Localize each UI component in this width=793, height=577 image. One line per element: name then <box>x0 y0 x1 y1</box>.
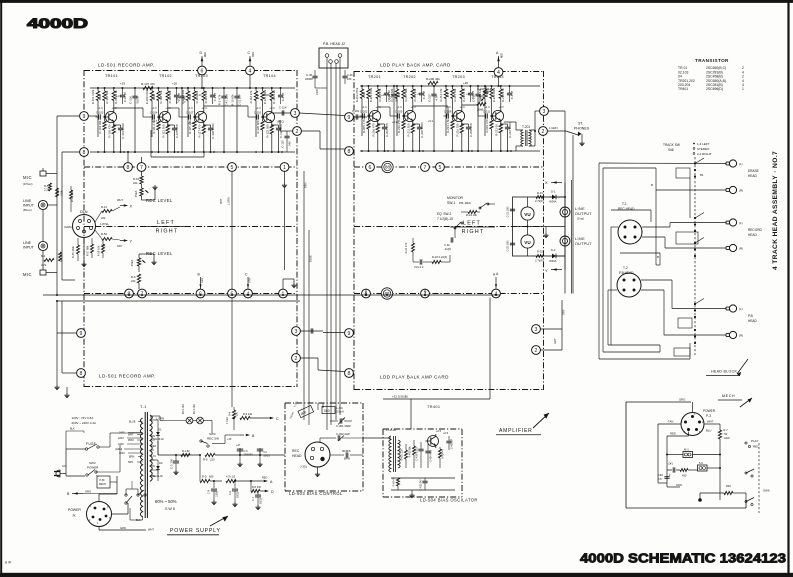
svg-text:R-2 2.2k: R-2 2.2k <box>59 251 63 262</box>
svg-text:150: 150 <box>236 411 239 416</box>
svg-text:REC LEVEL: REC LEVEL <box>146 198 173 203</box>
stage TR103 collector out wire <box>203 106 205 108</box>
switch contacts track sw upper <box>694 162 696 164</box>
record top feed wires <box>201 75 203 89</box>
stage TR201 bias resistor <box>367 89 370 99</box>
svg-text:R-109 100k: R-109 100k <box>145 89 149 104</box>
svg-text:36V: 36V <box>151 435 156 438</box>
playback supply rail <box>360 85 540 87</box>
svg-text:C1W: C1W <box>315 89 319 95</box>
transistor TR202 <box>404 110 415 121</box>
mech outer box <box>626 401 691 403</box>
svg-text:BLUE: BLUE <box>309 255 313 262</box>
inductor L-301 <box>298 405 314 417</box>
svg-text:2.7k(F): 2.7k(F) <box>535 259 544 263</box>
svg-text:GRY: GRY <box>562 309 566 315</box>
stage TR101 bias resistor <box>103 91 106 101</box>
stage TR101 rail capacitor <box>120 94 125 96</box>
svg-text:R-200 46k: R-200 46k <box>426 77 440 81</box>
svg-text:+15: +15 <box>466 92 471 96</box>
svg-text:50/25: 50/25 <box>135 96 139 103</box>
svg-text:SW-09-02: SW-09-02 <box>153 438 164 441</box>
svg-text:C-207: C-207 <box>428 94 432 102</box>
svg-text:STEREO: STEREO <box>697 147 710 151</box>
svg-text:20kB: 20kB <box>477 108 484 112</box>
VU wires <box>527 197 529 207</box>
svg-text:7 1/2(B)-15: 7 1/2(B)-15 <box>437 217 453 221</box>
svg-text:SW3: SW3 <box>89 461 96 465</box>
svg-text:VU: VU <box>524 240 531 245</box>
svg-text:AMPLIFIER: AMPLIFIER <box>499 428 533 434</box>
stage TR204 coupling capacitor <box>485 113 487 118</box>
record amp supply rail <box>90 87 295 89</box>
stage TR203 emitter resistor <box>460 124 463 133</box>
svg-text:T-201: T-201 <box>522 125 530 129</box>
svg-text:4 TRACK HEAD ASSEMBLY · NO.7: 4 TRACK HEAD ASSEMBLY · NO.7 <box>772 151 779 270</box>
svg-text:1-4 LEFT: 1-4 LEFT <box>697 142 710 146</box>
svg-text:VR201: VR201 <box>477 94 486 98</box>
stage TR102 coupling capacitor <box>152 114 154 119</box>
svg-text:# w: # w <box>4 559 11 565</box>
transistor TR204 <box>492 110 503 121</box>
svg-text:C#1: C#1 <box>668 462 673 466</box>
mains arrow <box>82 489 84 494</box>
svg-text:C-5 100: C-5 100 <box>170 459 174 469</box>
rec head wires <box>642 226 670 228</box>
arrow B power <box>240 434 244 436</box>
svg-text:R-122 380: R-122 380 <box>266 124 270 138</box>
svg-text:VU: VU <box>524 212 531 217</box>
R-2 resistor bottom <box>724 491 733 494</box>
svg-text:R-8 330: R-8 330 <box>252 486 262 489</box>
svg-text:R-110 18k: R-110 18k <box>168 90 172 103</box>
svg-text:4.7k: 4.7k <box>434 95 438 101</box>
svg-text:OUTPUT: OUTPUT <box>575 212 592 216</box>
rectifier verticals <box>157 441 159 455</box>
svg-text:BLK: BLK <box>70 428 75 431</box>
svg-text:C-7: C-7 <box>252 496 255 501</box>
svg-text:R-104 39k: R-104 39k <box>98 120 102 134</box>
DIN ground <box>83 238 85 263</box>
stage TR204 emitter resistor <box>499 124 502 133</box>
transistor TR203 <box>453 110 464 121</box>
SW5 wire <box>126 488 138 490</box>
svg-text:R-117 470: R-117 470 <box>198 124 202 137</box>
svg-text:BRN: BRN <box>344 457 350 461</box>
transistor TR102 <box>159 111 170 122</box>
playback amp card outline LDD <box>353 71 355 390</box>
extra wire record low <box>295 335 297 353</box>
svg-text:R-205 1.7k: R-205 1.7k <box>362 119 366 133</box>
ground rec level lower <box>138 254 140 258</box>
svg-text:MIC: MIC <box>23 175 32 180</box>
stage TR201 collector resistor <box>377 86 379 89</box>
svg-text:T-2: T-2 <box>623 266 628 270</box>
svg-text:2.2k: 2.2k <box>44 188 50 192</box>
record card pins row2 <box>125 289 134 298</box>
svg-text:+19: +19 <box>227 438 232 441</box>
wire record pin2 lower <box>300 357 318 359</box>
svg-text:C-10 10: C-10 10 <box>123 92 127 102</box>
stage TR202 collector out wire <box>412 105 414 107</box>
svg-text:450: 450 <box>682 474 687 478</box>
svg-text:C-201: C-201 <box>352 109 360 113</box>
stage TR203 collector out wire <box>461 105 463 107</box>
svg-text:R-206 470: R-206 470 <box>372 123 376 137</box>
R-7 4.7k resistor <box>226 479 236 482</box>
svg-text:C-2 47: C-2 47 <box>422 90 426 99</box>
svg-text:R-31: R-31 <box>537 191 543 195</box>
svg-text:9: 9 <box>80 331 83 337</box>
svg-text:R-21 470: R-21 470 <box>404 242 408 253</box>
svg-text:(REC): (REC) <box>277 120 284 124</box>
svg-text:HEAD: HEAD <box>748 319 758 323</box>
svg-text:TR401: TR401 <box>678 87 688 91</box>
trimmer C-301 <box>330 420 338 422</box>
ground rec level <box>142 199 156 201</box>
svg-text:REC: REC <box>292 449 300 453</box>
R-4 4.7k resistor <box>44 259 54 262</box>
svg-text:(R): (R) <box>739 188 743 192</box>
signal path wires record <box>114 107 143 109</box>
svg-text:SW4: SW4 <box>209 432 216 436</box>
svg-text:680: 680 <box>209 475 214 479</box>
svg-text:3: 3 <box>295 329 298 335</box>
C-402 cap <box>422 480 427 482</box>
svg-text:C-41 10/6: C-41 10/6 <box>224 93 228 106</box>
ground pin1 upper <box>284 172 286 184</box>
svg-text:(0.5mv): (0.5mv) <box>23 182 33 186</box>
head bus wires down <box>326 57 328 430</box>
TR401 transistor <box>428 436 439 447</box>
svg-text:(GRN): (GRN) <box>64 225 72 229</box>
ground mid VU <box>545 227 547 234</box>
C-303 wire <box>330 454 344 456</box>
svg-text:LINE: LINE <box>575 237 585 241</box>
svg-text:2: 2 <box>295 356 298 362</box>
svg-text:2-2 RIGHT: 2-2 RIGHT <box>697 152 712 156</box>
svg-text:LDD PLAY BALK AMP CARD: LDD PLAY BALK AMP CARD <box>380 375 449 380</box>
R-6 24k resistor to C <box>240 416 250 419</box>
playback top feed <box>498 77 500 87</box>
svg-text:BRN: BRN <box>304 182 308 188</box>
svg-text:50/25: 50/25 <box>237 491 240 498</box>
svg-text:C-110: C-110 <box>254 111 262 115</box>
R-220 resistor <box>432 261 441 264</box>
inter-stage capacitor <box>234 95 239 97</box>
svg-text:R-216 330: R-216 330 <box>456 123 460 137</box>
svg-text:+12.5/16(B): +12.5/16(B) <box>392 395 408 399</box>
svg-text:R-14: R-14 <box>101 205 107 209</box>
svg-text:P.B: P.B <box>748 314 753 318</box>
stage TR201 collector out wire <box>377 105 379 107</box>
svg-text:GRN: GRN <box>249 277 252 283</box>
svg-text:180: 180 <box>347 77 352 81</box>
svg-text:45kA: 45kA <box>130 260 134 267</box>
stage TR204 collector out wire <box>500 105 502 107</box>
R-24 resistor monitor <box>468 211 477 214</box>
svg-text:8: 8 <box>83 150 86 156</box>
svg-text:WHT: WHT <box>707 420 714 424</box>
oscillator bottom rail <box>391 477 455 479</box>
R-53 100k resistor <box>70 190 73 199</box>
svg-text:LD-501 RECORD AMP.: LD-501 RECORD AMP. <box>98 63 155 68</box>
svg-text:C-105 47/6: C-105 47/6 <box>175 124 179 138</box>
svg-text:102k: 102k <box>98 93 102 100</box>
svg-text:GRN: GRN <box>676 483 682 487</box>
svg-text:+23(REC): +23(REC) <box>262 93 274 97</box>
svg-text:5.5mH: 5.5mH <box>337 411 344 414</box>
stage TR204 bypass capacitor <box>505 126 510 128</box>
svg-text:8V 0.15A: 8V 0.15A <box>182 404 185 414</box>
svg-text:C-107: C-107 <box>186 111 194 115</box>
primary feed wires <box>120 432 143 434</box>
stage TR104 bypass capacitor <box>276 127 281 129</box>
svg-text:9: 9 <box>348 331 351 337</box>
svg-text:4.7k: 4.7k <box>182 97 186 103</box>
svg-text:22k: 22k <box>101 216 106 220</box>
svg-text:8: 8 <box>127 165 130 171</box>
svg-text:HEAD BLOCK: HEAD BLOCK <box>711 370 737 374</box>
svg-text:R-9: R-9 <box>203 458 208 462</box>
R-57 68k under DIN <box>91 244 94 253</box>
svg-text:+1.3: +1.3 <box>446 105 452 109</box>
R-6 22k lower <box>137 274 140 283</box>
svg-text:+13: +13 <box>197 93 202 97</box>
svg-text:R-211 560: R-211 560 <box>407 123 411 136</box>
inter-stage capacitor <box>431 93 436 95</box>
bias bus verticals <box>318 421 330 430</box>
svg-text:GRO: GRO <box>118 443 124 446</box>
playback input wire <box>349 116 367 118</box>
svg-text:RED: RED <box>201 278 204 283</box>
svg-text:200V ~ 240V 0.4A: 200V ~ 240V 0.4A <box>72 421 96 425</box>
transformer bottom wires <box>142 516 144 520</box>
svg-text:.01(F): .01(F) <box>444 247 451 251</box>
svg-text:R-40 4P: R-40 4P <box>393 477 396 486</box>
svg-text:PRM: PRM <box>128 439 134 442</box>
svg-text:L.GRN: L.GRN <box>227 197 231 205</box>
svg-text:C-9 25: C-9 25 <box>213 92 217 101</box>
lower ground stub <box>56 301 58 385</box>
pilot lamps <box>186 417 193 424</box>
svg-text:B: B <box>651 183 653 187</box>
phones drop wire <box>572 135 574 294</box>
GRY wires lower <box>540 328 562 330</box>
svg-text:50/25: 50/25 <box>394 94 398 101</box>
svg-text:C: C <box>276 417 279 421</box>
rec level pot R-16 under pin7 <box>141 172 143 177</box>
svg-text:LEFT: LEFT <box>463 221 481 227</box>
svg-text:RED: RED <box>205 52 207 57</box>
transistor TR104 <box>263 111 274 122</box>
stage TR103 rail capacitor <box>210 94 215 96</box>
arrow A power <box>264 480 268 483</box>
stage TR103 input resistor <box>187 88 189 91</box>
svg-text:P-5F: P-5F <box>100 479 106 482</box>
svg-text:C-203 47/6: C-203 47/6 <box>385 123 389 137</box>
svg-text:ERASE: ERASE <box>748 169 759 173</box>
svg-text:PLAY: PLAY <box>751 439 758 443</box>
svg-text:D: D <box>200 51 203 55</box>
stage TR203 collector resistor <box>461 86 463 89</box>
svg-text:M-1: M-1 <box>684 448 689 452</box>
C-10 cap <box>234 481 236 488</box>
C-302 cap <box>320 437 336 439</box>
svg-text:(50mv): (50mv) <box>23 208 32 212</box>
playback right lower pins <box>532 325 541 334</box>
svg-text:TR201: TR201 <box>368 75 381 79</box>
dashed switch line <box>694 157 696 355</box>
svg-text:R-214 1.5k: R-214 1.5k <box>446 119 450 133</box>
R-409 resistor <box>397 478 400 486</box>
C-9 cap <box>213 481 215 488</box>
svg-text:S#8: S#8 <box>668 148 674 152</box>
C-405 cap <box>446 440 451 442</box>
transistor TR101 <box>105 111 116 122</box>
VU meter box <box>513 197 566 256</box>
svg-text:150k: 150k <box>188 93 192 100</box>
svg-text:C-403 0.015: C-403 0.015 <box>416 447 419 461</box>
svg-text:R-402 56k: R-402 56k <box>409 446 412 458</box>
svg-text:TR401: TR401 <box>427 405 440 409</box>
svg-text:D1: D1 <box>158 428 162 432</box>
svg-text:R-219 470: R-219 470 <box>485 119 489 133</box>
svg-text:D2: D2 <box>159 461 163 465</box>
playback pins <box>345 113 354 122</box>
stage TR202 base lower resistor <box>402 120 405 129</box>
playback card pins row2 <box>362 289 371 298</box>
svg-text:C-104: C-104 <box>150 111 158 115</box>
transistor TR103 <box>195 111 206 122</box>
inter-stage capacitor <box>179 95 184 97</box>
svg-text:P-3: P-3 <box>706 414 711 418</box>
svg-text:ORG: ORG <box>679 398 685 402</box>
stage TR103 coupling capacitor <box>188 114 190 119</box>
svg-text:C#2: C#2 <box>658 473 663 477</box>
svg-text:+1.3: +1.3 <box>98 106 104 110</box>
stage TR104 emitter resistor <box>270 125 273 134</box>
VU meter upper <box>521 207 534 220</box>
pb head jack L <box>729 305 736 312</box>
svg-text:R-1 82: R-1 82 <box>182 450 190 453</box>
svg-text:C-32 1/50: C-32 1/50 <box>507 240 510 252</box>
line out jack lower <box>560 236 570 246</box>
svg-text:4.7k 1/2: 4.7k 1/2 <box>226 475 236 479</box>
secondary to lamp wire <box>150 415 160 417</box>
svg-text:C-301 360P: C-301 360P <box>336 424 351 428</box>
svg-text:DIN: DIN <box>80 210 88 214</box>
svg-text:100/6: 100/6 <box>216 490 219 497</box>
arrow C above pin4 <box>247 277 249 289</box>
arrow C power <box>270 417 274 420</box>
arrow A playback top <box>498 56 500 68</box>
svg-text:RED: RED <box>151 445 156 448</box>
svg-text:J-301: J-301 <box>300 465 307 469</box>
rectifier output wires <box>157 441 159 455</box>
stage TR201 rail capacitor <box>384 92 389 94</box>
svg-text:C-404 40/3: C-404 40/3 <box>430 449 433 461</box>
svg-text:R-53 100k: R-53 100k <box>70 189 74 202</box>
AC plug <box>56 470 60 477</box>
stage TR203 bias resistor <box>451 89 454 99</box>
svg-text:R-7: R-7 <box>724 428 729 432</box>
svg-text:TRACK SW: TRACK SW <box>663 143 680 147</box>
svg-text:REC.SW: REC.SW <box>207 437 219 441</box>
svg-text:6: 6 <box>369 165 372 171</box>
svg-text:C: C <box>248 51 251 55</box>
svg-text:C-209 47/6: C-209 47/6 <box>469 123 473 137</box>
C-1 capacitor <box>672 467 674 472</box>
record lower pin9 wire <box>57 332 77 334</box>
R-51 resistor <box>49 183 52 191</box>
rail junction dots record <box>97 151 99 153</box>
stage TR103 bypass capacitor <box>208 127 213 129</box>
svg-text:LINE: LINE <box>23 241 32 245</box>
R-2 resistor lower <box>59 252 62 261</box>
svg-text:+1.3: +1.3 <box>256 106 262 110</box>
svg-text:R-108 56k: R-108 56k <box>159 90 163 104</box>
stage TR103 emitter resistor <box>202 125 205 134</box>
svg-text:P.B--REC: P.B--REC <box>459 201 471 205</box>
svg-text:R-207 68k: R-207 68k <box>404 88 408 102</box>
diode D-2 lower <box>552 254 556 259</box>
L.GRN vertical wire pin5 <box>231 172 233 290</box>
R-14 22k to X <box>102 210 112 213</box>
svg-text:L.GRN: L.GRN <box>549 126 558 130</box>
signal path wires playback <box>378 106 390 108</box>
C-11 cap <box>250 494 252 496</box>
inter-stage capacitor <box>475 93 480 95</box>
arrow D record top <box>201 56 203 66</box>
svg-text:+0.5: +0.5 <box>436 429 442 433</box>
svg-text:INPUT: INPUT <box>23 246 35 250</box>
svg-text:+20: +20 <box>172 82 177 86</box>
svg-text:C-402 047: C-402 047 <box>420 479 423 491</box>
svg-text:R#2: R#2 <box>726 484 731 488</box>
C-5 cap near diode <box>173 460 179 462</box>
svg-text:LD-504 BIAS OSCILATOR: LD-504 BIAS OSCILATOR <box>420 498 478 503</box>
wire to record pin8 <box>62 151 80 153</box>
svg-text:C-211: C-211 <box>483 110 491 114</box>
svg-text:LINE: LINE <box>23 199 32 203</box>
svg-text:B1: B1 <box>700 173 704 177</box>
rec level pot upper <box>140 188 143 196</box>
svg-text:2SC696(D): 2SC696(D) <box>706 87 723 91</box>
pb head jack R <box>729 331 736 338</box>
R-31 2.7k(F) resistor <box>536 196 544 199</box>
svg-text:5-C: 5-C <box>699 461 703 465</box>
transistor TR201 <box>369 110 380 121</box>
record amp ground rail <box>90 151 295 153</box>
svg-text:60% ~ 50%: 60% ~ 50% <box>155 499 177 504</box>
svg-text:+1.3: +1.3 <box>362 105 368 109</box>
svg-text:ORG: ORG <box>253 52 255 57</box>
svg-text:C-204: C-204 <box>388 94 392 102</box>
stage TR204 rail capacitor <box>507 92 512 94</box>
svg-text:C-11 25P: C-11 25P <box>237 94 241 106</box>
svg-text:+1.3: +1.3 <box>152 106 158 110</box>
svg-text:R-58 10k: R-58 10k <box>97 245 101 256</box>
svg-text:+2.3: +2.3 <box>499 105 505 109</box>
stage TR104 coupling capacitor <box>256 114 258 119</box>
svg-text:BRN: BRN <box>129 456 134 459</box>
svg-text:4.7k: 4.7k <box>41 263 47 267</box>
record head jack L <box>729 219 736 226</box>
svg-text:BLUE: BLUE <box>129 421 136 424</box>
arrow B above pin6 <box>200 277 202 289</box>
svg-text:+2.3: +2.3 <box>202 106 208 110</box>
